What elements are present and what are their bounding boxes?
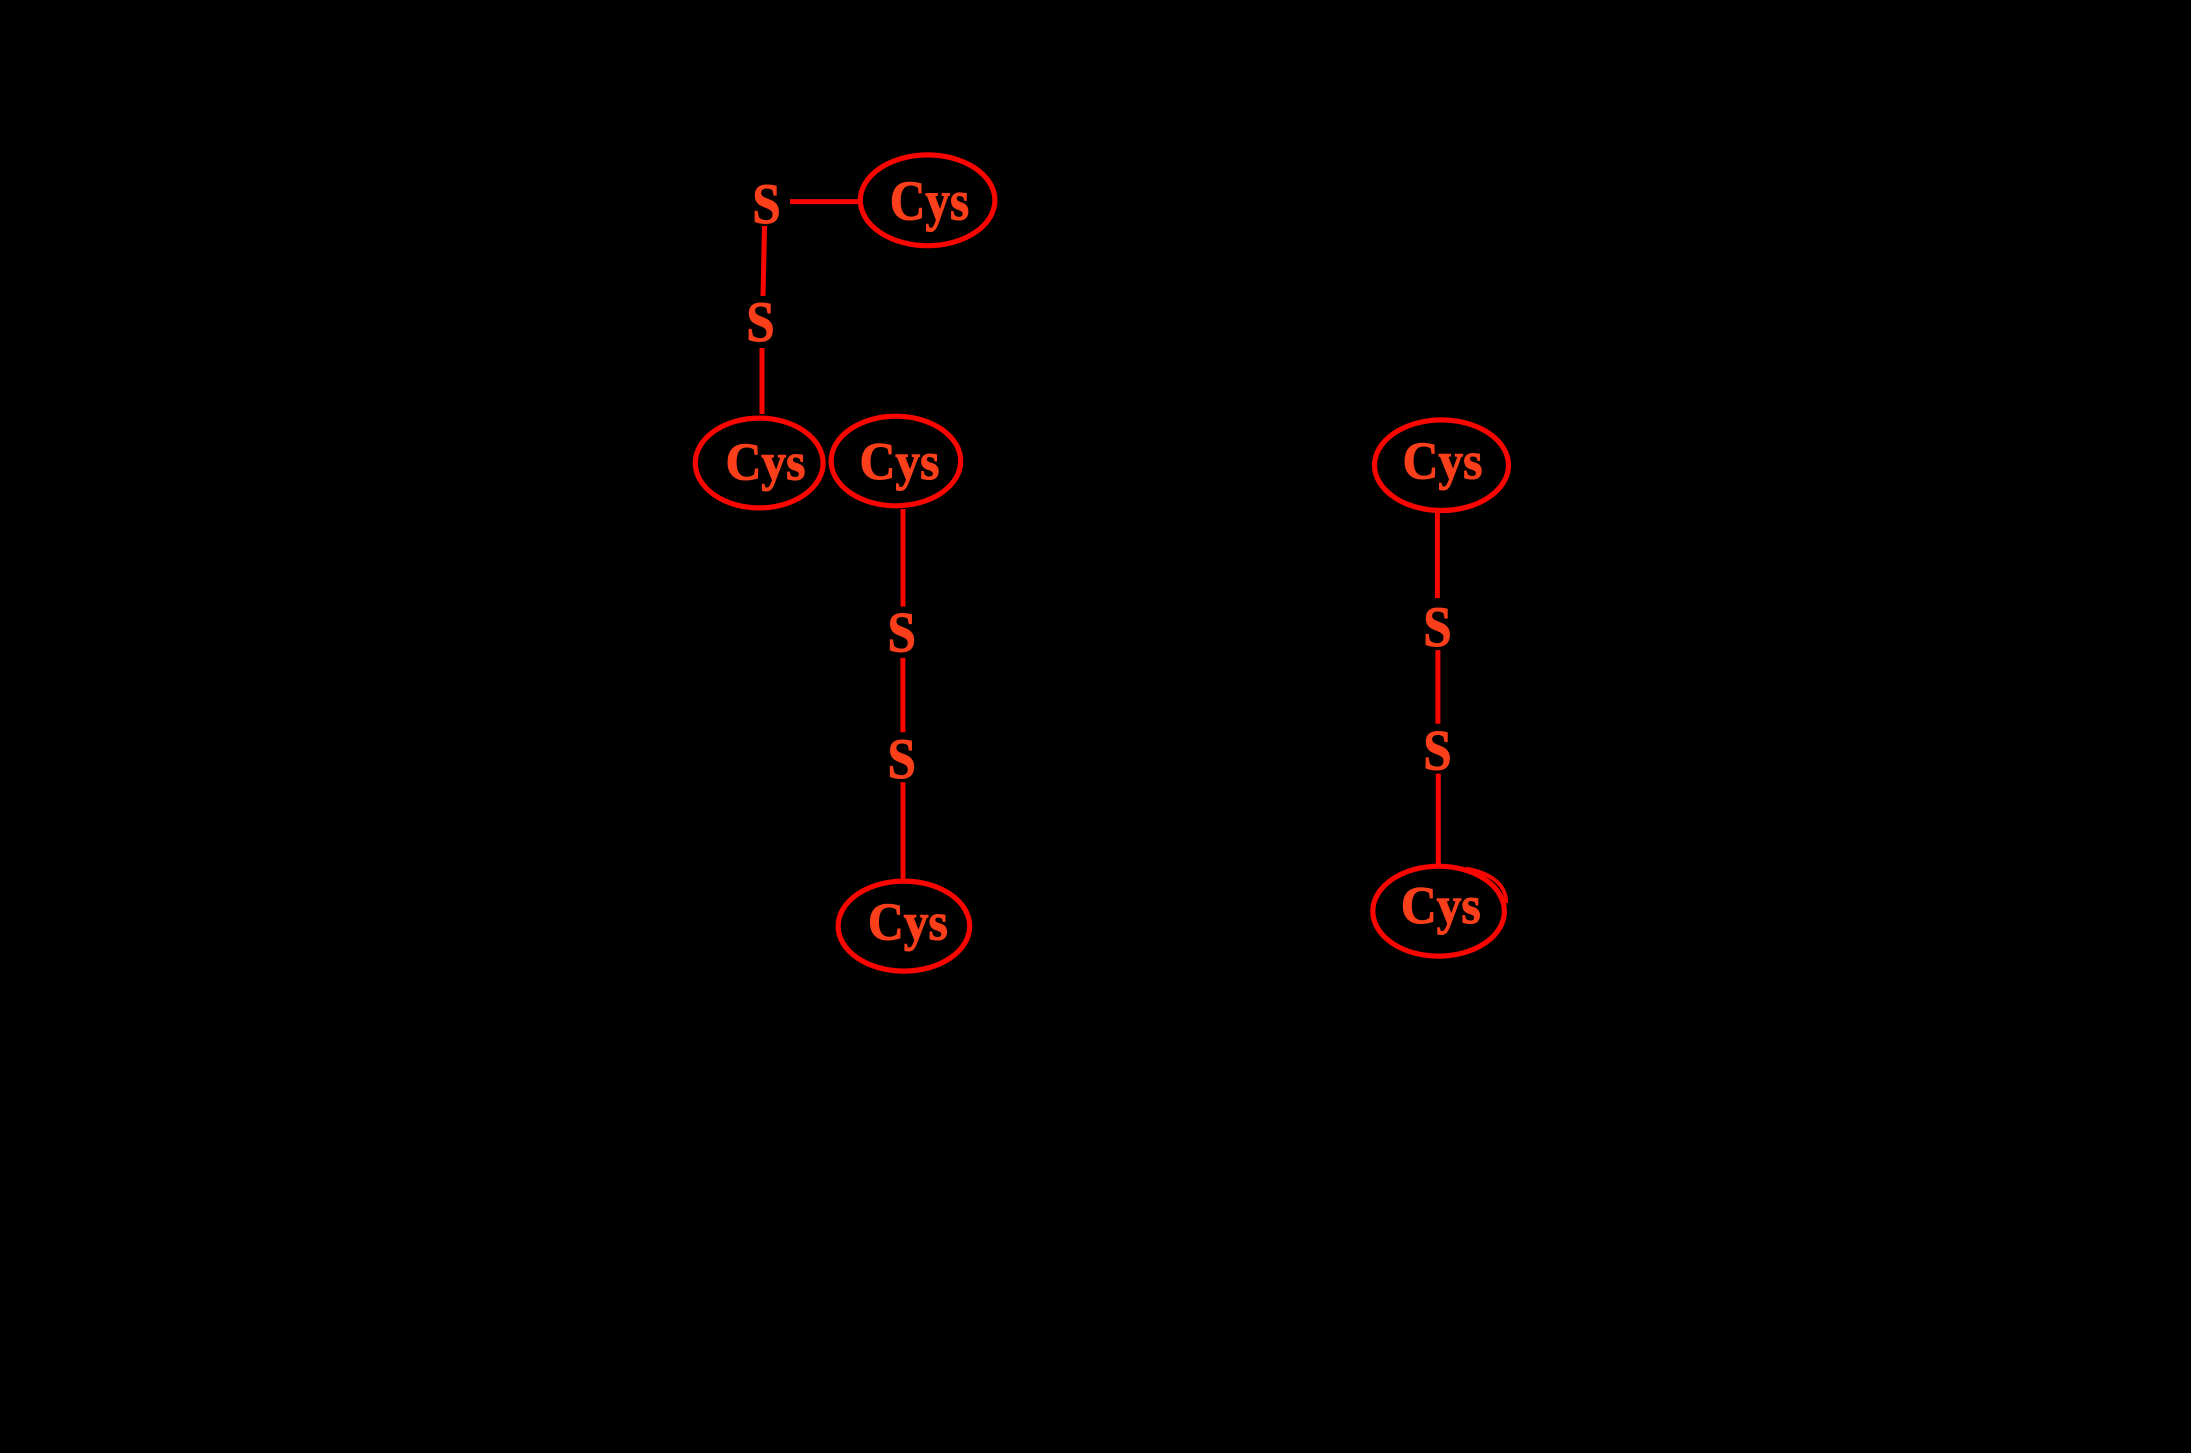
node S2 xyxy=(746,290,774,353)
svg-text:S: S xyxy=(746,290,774,353)
label Cys 4 xyxy=(868,893,948,952)
label Cys 2 xyxy=(726,433,806,492)
wire Cys oval 3 to S3 xyxy=(901,509,906,607)
node S4 xyxy=(888,727,916,790)
svg-text:Cys: Cys xyxy=(868,893,948,952)
wire S1 to Cys oval 1 (horizontal bond) xyxy=(790,199,859,204)
svg-text:Cys: Cys xyxy=(1401,876,1481,935)
Cys oval 5 (top right) xyxy=(1375,420,1509,511)
label Cys 3 xyxy=(860,433,940,492)
node S5 xyxy=(1423,595,1451,658)
wire S2 to Cys oval 2 xyxy=(760,348,765,414)
svg-text:Cys: Cys xyxy=(1403,432,1483,491)
svg-text:S: S xyxy=(888,601,916,664)
label Cys 1 xyxy=(890,171,969,233)
wire S5 to S6 (disulfide bond right) xyxy=(1435,650,1440,724)
wire Cys oval 5 to S5 xyxy=(1435,511,1440,598)
Cys oval 4 (bottom left) xyxy=(838,881,970,971)
node S3 xyxy=(888,601,916,664)
node S6 xyxy=(1423,719,1451,782)
Cys oval 1 (top) xyxy=(860,155,995,246)
wire S6 to Cys oval 6 xyxy=(1436,774,1441,865)
Cys oval 6 rim bump (overlapping stroke end) xyxy=(1466,869,1506,904)
label Cys 5 xyxy=(1403,432,1483,491)
svg-text:Cys: Cys xyxy=(860,433,940,492)
svg-text:S: S xyxy=(1423,719,1451,782)
svg-text:S: S xyxy=(1423,595,1451,658)
label Cys 6 xyxy=(1401,876,1481,935)
svg-text:Cys: Cys xyxy=(890,171,969,233)
wire S3 to S4 (disulfide bond lower-left) xyxy=(900,658,905,732)
Cys oval 2 (middle left) xyxy=(695,418,823,508)
Cys oval 6 (bottom right) xyxy=(1373,866,1505,956)
node S1 (top-left sulfur label) xyxy=(752,172,780,235)
svg-text:S: S xyxy=(888,727,916,790)
svg-text:Cys: Cys xyxy=(726,433,806,492)
Cys oval 3 (middle right, adjacent) xyxy=(831,416,961,506)
wire S1 to S2 (disulfide bond upper) xyxy=(763,226,765,296)
wire S4 to Cys oval 4 xyxy=(901,782,906,879)
